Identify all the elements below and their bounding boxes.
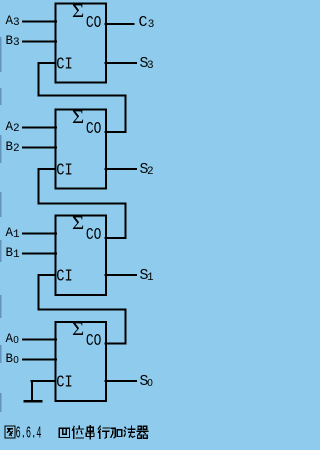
svg-text:CO: CO bbox=[86, 14, 102, 33]
svg-text:CI: CI bbox=[56, 374, 72, 393]
svg-text:3: 3 bbox=[13, 17, 20, 29]
svg-text:CI: CI bbox=[56, 268, 72, 287]
svg-text:1: 1 bbox=[13, 229, 20, 241]
svg-text:1: 1 bbox=[13, 249, 20, 261]
svg-text:CO: CO bbox=[86, 332, 102, 351]
svg-text:2: 2 bbox=[147, 166, 154, 178]
svg-text:CO: CO bbox=[86, 226, 102, 245]
svg-text:1: 1 bbox=[147, 272, 154, 284]
svg-text:3: 3 bbox=[13, 37, 20, 49]
svg-text:3: 3 bbox=[147, 60, 154, 72]
svg-text:Σ: Σ bbox=[72, 213, 84, 234]
svg-text:6.6.4: 6.6.4 bbox=[16, 425, 42, 444]
svg-text:2: 2 bbox=[13, 123, 20, 135]
svg-text:CI: CI bbox=[56, 56, 72, 75]
svg-text:3: 3 bbox=[148, 19, 155, 31]
svg-text:Σ: Σ bbox=[72, 319, 84, 340]
svg-text:Σ: Σ bbox=[72, 107, 84, 128]
svg-text:0: 0 bbox=[13, 335, 19, 346]
svg-text:0: 0 bbox=[13, 355, 19, 366]
svg-text:Σ: Σ bbox=[72, 1, 84, 22]
svg-text:CO: CO bbox=[86, 120, 102, 139]
svg-text:2: 2 bbox=[13, 143, 20, 155]
svg-text:C: C bbox=[139, 14, 148, 31]
svg-text:CI: CI bbox=[56, 162, 72, 181]
svg-text:0: 0 bbox=[147, 378, 153, 389]
